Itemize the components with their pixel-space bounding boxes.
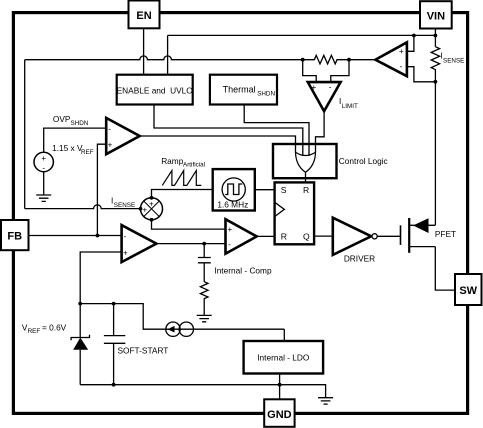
pin box EN bbox=[129, 1, 160, 29]
wire: LDO to GND pin bbox=[279, 374, 281, 400]
svg-text:-: - bbox=[329, 82, 332, 91]
svg-text:+: + bbox=[123, 248, 128, 257]
svg-text:VIN: VIN bbox=[427, 11, 445, 23]
svg-text:LIMIT: LIMIT bbox=[342, 103, 358, 110]
svg-text:+: + bbox=[149, 199, 154, 208]
wire: VIN rail to ENABLE block bbox=[167, 35, 169, 74]
transistor PFET bbox=[400, 225, 402, 245]
svg-text:-: - bbox=[42, 164, 45, 173]
pin box FB bbox=[1, 220, 29, 250]
svg-text:+: + bbox=[142, 206, 147, 215]
svg-text:EN: EN bbox=[136, 10, 151, 22]
svg-text:PFET: PFET bbox=[435, 229, 456, 239]
wire: ILIMIT output to OR gate bbox=[316, 111, 325, 152]
block Control Logic bbox=[273, 144, 337, 178]
capacitor SOFT-START bbox=[104, 304, 125, 385]
zener diode VREF bbox=[79, 304, 81, 338]
ground bbox=[36, 195, 51, 201]
SR latch bbox=[275, 182, 315, 244]
svg-text:FB: FB bbox=[7, 231, 22, 243]
wire: I_SENSE signal top horizontal y=59.7 with hops bbox=[25, 56, 303, 60]
wires: OR gate inputs inside box bbox=[296, 144, 316, 156]
wire: sense amp output to gain resistor bbox=[349, 59, 375, 61]
wire: PWM output to latch R bbox=[257, 235, 275, 237]
OR gate bbox=[296, 152, 316, 155]
svg-text:Control Logic: Control Logic bbox=[339, 156, 388, 166]
capacitor comp bbox=[198, 244, 211, 282]
block ENABLE and UVLO bbox=[117, 75, 193, 105]
svg-text:1.6 MHz: 1.6 MHz bbox=[217, 200, 248, 210]
wire: sense amp - stub bbox=[407, 67, 436, 82]
svg-text:SOFT-START: SOFT-START bbox=[118, 346, 169, 356]
svg-text:Internal - LDO: Internal - LDO bbox=[257, 353, 310, 363]
svg-text:S: S bbox=[281, 185, 287, 195]
svg-text:REF: REF bbox=[81, 149, 94, 156]
svg-text:REF: REF bbox=[28, 328, 41, 335]
wire: ENABLE output to OR gate bbox=[154, 105, 303, 156]
pin box GND bbox=[264, 399, 294, 427]
svg-text:R: R bbox=[281, 232, 287, 242]
svg-text:+: + bbox=[41, 154, 46, 163]
wire: Thermal output to OR gate bbox=[244, 105, 309, 156]
svg-text:Q: Q bbox=[303, 232, 310, 242]
comparator PWM bbox=[226, 219, 257, 254]
wire: FB sense vertical to OVP + input bbox=[97, 144, 106, 235]
wire: source to ground bbox=[43, 172, 45, 195]
wire: driver to PFET gate bbox=[377, 235, 400, 237]
summing node multiplier bbox=[141, 198, 163, 220]
wire: bottom ground rail bbox=[80, 385, 325, 398]
ramp waveform bbox=[162, 171, 201, 186]
wire: ILIMIT comparator + input bbox=[303, 60, 317, 82]
resistor RSENSE vertical bbox=[431, 47, 439, 82]
svg-text:SENSE: SENSE bbox=[114, 202, 135, 209]
wire: summing node to ramp/oscillator bbox=[152, 190, 213, 198]
wire: VIN top rail y=35.4 bbox=[168, 34, 436, 36]
voltage source 1.15xVREF bbox=[34, 152, 53, 171]
svg-text:GND: GND bbox=[267, 409, 292, 421]
ground comp bbox=[197, 315, 212, 321]
wire: summing node to PWM + input bbox=[152, 220, 226, 229]
error amplifier bbox=[122, 225, 157, 262]
latch clock wedge bbox=[275, 202, 285, 216]
svg-text:-: - bbox=[108, 124, 111, 133]
svg-text:Thermal: Thermal bbox=[223, 84, 256, 94]
svg-text:Artificial: Artificial bbox=[183, 162, 205, 169]
wire: reference node horizontal bbox=[80, 304, 166, 330]
svg-text:R: R bbox=[303, 185, 309, 195]
svg-text:SW: SW bbox=[459, 285, 477, 297]
svg-text:1.15 x V: 1.15 x V bbox=[52, 143, 83, 153]
block Internal LDO bbox=[244, 341, 324, 374]
svg-text:+: + bbox=[312, 83, 317, 92]
svg-text:SHDN: SHDN bbox=[71, 120, 89, 127]
op-amp current sense (points left) bbox=[375, 42, 407, 76]
svg-text:-: - bbox=[124, 232, 127, 241]
wire: error amp output to PWM - input bbox=[156, 243, 225, 245]
svg-text:OVP: OVP bbox=[53, 114, 71, 124]
svg-text:Ramp: Ramp bbox=[161, 156, 184, 166]
svg-text:= 0.6V: = 0.6V bbox=[42, 323, 67, 333]
wire: ILIMIT comparator - input bbox=[331, 60, 349, 82]
wire: VIN vertical to PFET source bbox=[434, 82, 436, 226]
pin box VIN bbox=[420, 1, 452, 28]
pin box SW bbox=[455, 274, 482, 305]
ground bottom bbox=[318, 398, 333, 404]
wire: sense amp + stub bbox=[407, 36, 414, 52]
svg-text:+: + bbox=[399, 47, 404, 56]
svg-text:SHDN: SHDN bbox=[257, 90, 275, 97]
wire: Q output to driver bbox=[314, 235, 333, 237]
wire: OVP output to OR gate bbox=[140, 136, 296, 153]
svg-text:DRIVER: DRIVER bbox=[344, 254, 375, 264]
svg-text:+: + bbox=[228, 225, 233, 234]
wire: oscillator to latch S bbox=[255, 189, 275, 191]
oscillator 1.6MHz box bbox=[213, 169, 255, 210]
svg-text:-: - bbox=[228, 240, 231, 249]
wire: current source fed from LDO bbox=[283, 329, 285, 341]
svg-text:-: - bbox=[400, 62, 403, 71]
svg-text:Internal - Comp: Internal - Comp bbox=[214, 266, 272, 276]
wire: FB to error amp - input bbox=[28, 235, 121, 237]
wire: EN pin to ENABLE block bbox=[143, 28, 145, 74]
buffer DRIVER bbox=[333, 218, 371, 255]
block Thermal SHDN bbox=[210, 75, 277, 105]
wire: PFET drain to SW bbox=[435, 247, 455, 291]
wire: error amp + to reference node bbox=[80, 252, 121, 304]
svg-text:SENSE: SENSE bbox=[443, 58, 464, 65]
wire: I_SENSE bottom horizontal with hop bbox=[25, 205, 141, 209]
svg-text:+: + bbox=[108, 140, 113, 149]
comparator OVP bbox=[106, 118, 140, 154]
wire: VIN pin drop bbox=[434, 29, 436, 47]
resistor gain horizontal bbox=[303, 55, 349, 64]
svg-text:ENABLE and UVLO: ENABLE and UVLO bbox=[117, 85, 194, 95]
wire: I_SENSE left vertical bbox=[24, 60, 26, 209]
comparator ILIMIT (points down) bbox=[308, 82, 341, 111]
wire: OR output to latch R bbox=[305, 172, 307, 182]
wire: OVP comparator - input bbox=[44, 128, 106, 152]
resistor comp bbox=[200, 282, 208, 316]
current source soft-start bbox=[166, 328, 284, 330]
